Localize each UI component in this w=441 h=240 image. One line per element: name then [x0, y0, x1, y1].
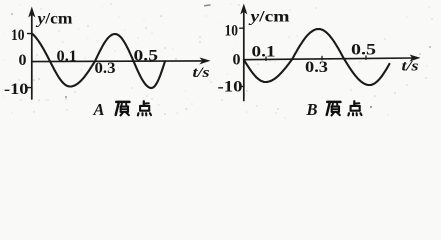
graph B t=0.1 tick	[265, 57, 267, 61]
svg-text:0.1: 0.1	[57, 48, 78, 65]
svg-text:A: A	[93, 100, 105, 119]
graph B t=0.3 tick	[321, 56, 323, 60]
graph A caption 点	[138, 101, 151, 115]
graph A caption 质	[116, 102, 130, 116]
svg-text:0: 0	[233, 51, 241, 68]
svg-text:10: 10	[11, 27, 25, 44]
svg-text:0.3: 0.3	[305, 59, 328, 76]
svg-text:y/cm: y/cm	[248, 8, 290, 25]
graph B x-axis arrowhead	[410, 55, 421, 62]
graph B t=0.5 tick	[365, 56, 367, 60]
graph A y-axis	[31, 11, 33, 99]
graph A x-axis arrowhead	[200, 57, 211, 64]
svg-text:-10: -10	[218, 79, 243, 96]
svg-text:0.3: 0.3	[95, 60, 116, 77]
graph B x-axis	[244, 58, 414, 60]
graph A +10 tick	[28, 33, 32, 35]
graph B y-axis	[243, 9, 245, 101]
graph B y-axis arrowhead	[240, 4, 247, 15]
svg-text:0.1: 0.1	[252, 43, 276, 60]
svg-text:B: B	[306, 100, 318, 119]
svg-text:0.5: 0.5	[351, 41, 376, 58]
svg-text:-10: -10	[4, 81, 29, 98]
graph A waveform (cosine)	[32, 34, 165, 89]
scan background	[0, 0, 441, 121]
svg-text:t/s: t/s	[193, 65, 210, 81]
graph B caption 点	[348, 101, 361, 115]
svg-text:10: 10	[225, 23, 239, 40]
graph A -10 tick	[28, 87, 32, 89]
graph B -10 tick	[240, 85, 244, 87]
svg-text:t/s: t/s	[402, 59, 419, 75]
svg-text:0.5: 0.5	[134, 47, 159, 64]
svg-text:y/cm: y/cm	[35, 11, 72, 28]
graph B caption 质	[327, 102, 341, 116]
svg-text:0: 0	[19, 52, 27, 69]
graph A x-axis	[32, 60, 204, 63]
graph B waveform (negative sine)	[244, 29, 390, 85]
graph A y-axis arrowhead	[28, 7, 35, 18]
graph B +10 tick	[240, 27, 244, 29]
